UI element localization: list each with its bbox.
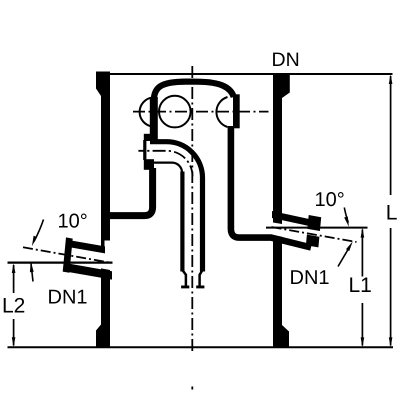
bottom-left hub flange (96, 325, 101, 348)
right horizontal reference line (266, 227, 368, 229)
dimension L2 line (13, 265, 15, 346)
left angle lower tail (31, 262, 33, 281)
dimension L1 top arrow (361, 228, 365, 238)
dimension L2 bottom arrow (12, 337, 16, 347)
dimension L line (390, 76, 392, 346)
body right wall (273, 74, 282, 348)
right angle lower arrow (346, 241, 353, 251)
left branch bottom wall (64, 263, 112, 280)
down pipe spigot end bead (181, 285, 204, 288)
internal baffle to right branch bottom wall (231, 126, 311, 247)
left branch socket end bar (63, 237, 73, 272)
svg-text:DN: DN (272, 49, 300, 71)
svg-text:DN1: DN1 (48, 287, 88, 309)
right angle lower tail (338, 247, 350, 267)
elbow socket bottom tab (144, 159, 154, 170)
right branch socket end bar (306, 215, 321, 247)
left angle arc upper (34, 220, 44, 242)
down pipe spigot taper (182, 270, 202, 286)
elbow bottom edge (150, 163, 182, 173)
body left wall (101, 72, 110, 348)
left angle lower arrow (30, 262, 34, 273)
left branch centerline (23, 247, 111, 262)
internal J-duct left wall to elbow socket (110, 168, 153, 216)
left angle upper arrow (32, 236, 37, 247)
svg-text:L2: L2 (2, 294, 25, 317)
right socket bore cut (306, 229, 322, 238)
bottom-right hub flange (282, 325, 289, 348)
svg-text:L: L (386, 201, 398, 224)
right port flat bar (233, 94, 240, 128)
right angle upper arrow (344, 217, 349, 227)
vertical centerline lower dot (191, 387, 193, 390)
svg-text:10°: 10° (315, 189, 345, 211)
left port circle (arc behind leg) (140, 98, 153, 127)
elbow outer edge (150, 142, 203, 272)
dimension L2 top arrow (12, 263, 16, 273)
right wall branch opening cut (272, 222, 284, 237)
elbow socket left face (143, 140, 146, 160)
top-right hub flange (282, 74, 290, 99)
svg-text:L1: L1 (349, 274, 372, 297)
middle port circle (159, 96, 191, 128)
right port half circle (216, 97, 227, 127)
right branch top wall (272, 211, 320, 228)
left wall branch opening cut (100, 241, 111, 271)
horizontal centerline (133, 111, 269, 113)
body top edge line (110, 73, 393, 75)
dimension L top arrow (389, 74, 393, 84)
svg-text:DN1: DN1 (290, 267, 330, 289)
left horizontal reference line (8, 262, 113, 264)
vertical centerline (191, 66, 193, 351)
top-left hub flange (96, 72, 101, 97)
left branch top wall (66, 240, 105, 254)
elbow socket top tab (144, 134, 154, 141)
internal arch left leg (150, 97, 158, 140)
dimension L1 bottom arrow (361, 337, 365, 347)
right branch centerline (272, 227, 357, 242)
down pipe left wall (180, 172, 184, 272)
dimension L bottom arrow (389, 337, 393, 347)
svg-text:10°: 10° (58, 211, 88, 233)
elbow pipe axis centerline (138, 151, 192, 177)
internal arch pipe (154, 82, 234, 101)
right angle arc upper (344, 208, 348, 223)
dimension L1 line (361, 230, 363, 346)
body bottom edge and extension line (8, 346, 394, 348)
